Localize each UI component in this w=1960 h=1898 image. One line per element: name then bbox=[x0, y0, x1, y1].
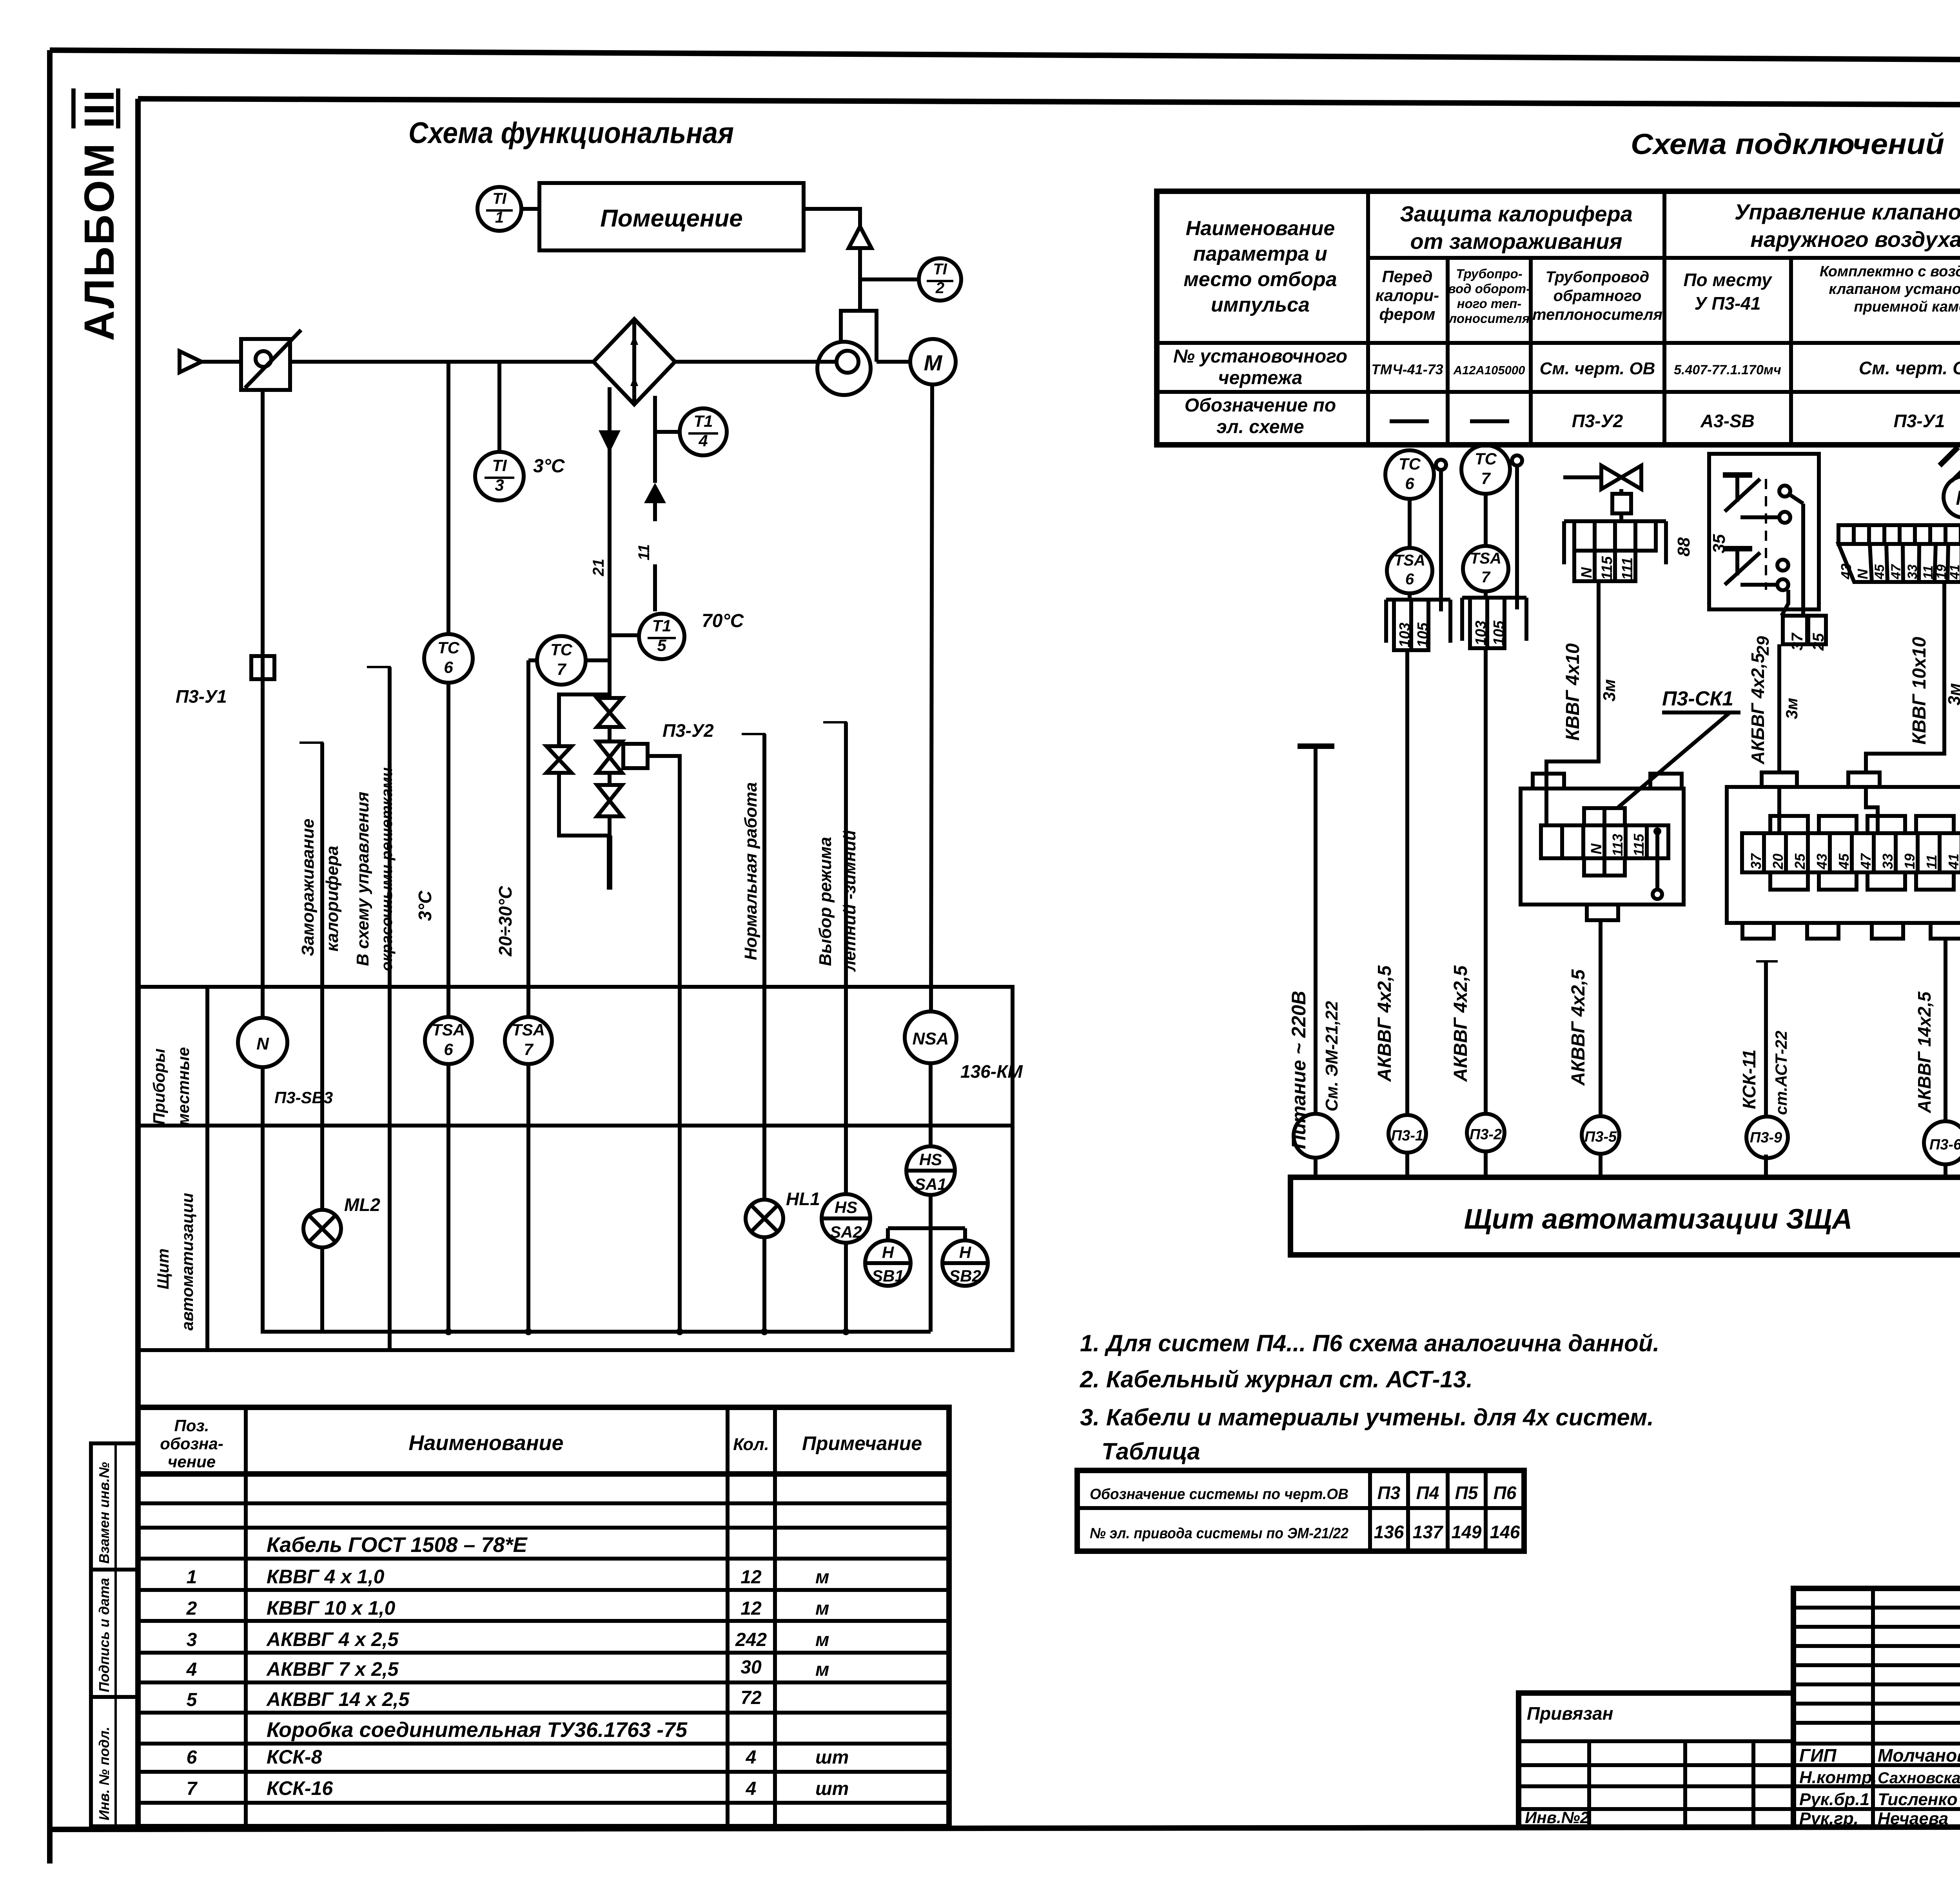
parts row 6 bbox=[187, 1746, 849, 1768]
outdoor valve symbol bbox=[1563, 466, 1641, 513]
svg-text:АЛЬБОМ III: АЛЬБОМ III bbox=[75, 89, 123, 341]
label П3-СК1 bbox=[1618, 687, 1740, 807]
svg-text:6: 6 bbox=[444, 1040, 453, 1059]
instrument circle divider bars bbox=[485, 210, 1960, 638]
svg-text:КВВГ 4 х 1,0: КВВГ 4 х 1,0 bbox=[267, 1566, 385, 1588]
label Замораживание калорифера wire bbox=[298, 743, 342, 1210]
button bus SB1 SB2 bbox=[888, 1063, 965, 1332]
svg-text:Щит: Щит bbox=[154, 1248, 172, 1289]
fan volute bbox=[817, 248, 877, 395]
svg-text:Комплектно с воздушным: Комплектно с воздушным bbox=[1820, 263, 1960, 280]
svg-text:41: 41 bbox=[1945, 854, 1960, 870]
setpoint 20-30C on TC7 line bbox=[495, 886, 515, 957]
svg-text:ТІ: ТІ bbox=[492, 190, 506, 207]
main duct line bbox=[290, 360, 837, 364]
band label Щит автоматизации bbox=[154, 1193, 196, 1331]
svg-text:вод оборот-: вод оборот- bbox=[1448, 281, 1530, 296]
svg-text:№ установочного: № установочного bbox=[1173, 346, 1347, 367]
svg-text:П3-У2: П3-У2 bbox=[1572, 411, 1623, 431]
subheader Комплектно bbox=[1820, 263, 1960, 315]
svg-text:ТС: ТС bbox=[1475, 450, 1497, 468]
svg-text:20÷30°C: 20÷30°C bbox=[495, 886, 515, 957]
svg-text:1: 1 bbox=[187, 1567, 197, 1588]
svg-text:19: 19 bbox=[1934, 564, 1949, 579]
heater diamond bbox=[593, 319, 675, 404]
terminal box 103 105 col6 bbox=[1386, 600, 1450, 1115]
svg-text:ТС: ТС bbox=[1399, 455, 1421, 473]
svg-text:теплоносителя: теплоносителя bbox=[1532, 306, 1662, 323]
svg-text:21: 21 bbox=[590, 559, 607, 577]
svg-text:45: 45 bbox=[1872, 564, 1887, 580]
label В схему управления wire bbox=[353, 667, 396, 1350]
svg-text:НS: НS bbox=[835, 1198, 857, 1216]
circle П3-2 bbox=[1467, 1114, 1504, 1177]
circle П3-6 bbox=[1924, 1121, 1960, 1177]
svg-text:4: 4 bbox=[746, 1747, 757, 1768]
svg-text:SА2: SА2 bbox=[830, 1223, 862, 1241]
svg-text:Трубопровод: Трубопровод bbox=[1546, 268, 1649, 286]
svg-text:параметра и: параметра и bbox=[1193, 243, 1327, 265]
svg-text:Молчанов: Молчанов bbox=[1878, 1745, 1960, 1766]
svg-text:эл. схеме: эл. схеме bbox=[1216, 417, 1304, 437]
svg-text:70°C: 70°C bbox=[702, 611, 744, 631]
svg-text:5.407-77.1.170мч: 5.407-77.1.170мч bbox=[1674, 363, 1781, 377]
svg-text:шт: шт bbox=[815, 1778, 849, 1799]
svg-text:ТМЧ-41-73: ТМЧ-41-73 bbox=[1371, 361, 1443, 377]
svg-text:П4: П4 bbox=[1416, 1483, 1439, 1503]
svg-text:импульса: импульса bbox=[1211, 294, 1310, 316]
svg-text:Рук.бр.1: Рук.бр.1 bbox=[1799, 1790, 1869, 1809]
svg-text:45: 45 bbox=[1836, 853, 1852, 870]
wire room to damper bbox=[804, 209, 860, 227]
instrument TI/1 bbox=[477, 187, 539, 231]
svg-text:КВВГ 10х10: КВВГ 10х10 bbox=[1909, 637, 1930, 745]
panel switch HS/SA2 bbox=[822, 1194, 870, 1243]
svg-text:местные: местные bbox=[174, 1047, 192, 1126]
svg-text:113: 113 bbox=[1610, 834, 1626, 856]
svg-text:5: 5 bbox=[187, 1690, 198, 1710]
svg-text:Обозначение системы по черт.ОВ: Обозначение системы по черт.ОВ bbox=[1090, 1486, 1348, 1503]
title block signature rows bbox=[1799, 1745, 1960, 1828]
cable КВВГ 4х10 wire to СК1 bbox=[1546, 581, 1619, 789]
system table bbox=[1077, 1470, 1524, 1551]
svg-text:КСК-16: КСК-16 bbox=[267, 1777, 333, 1799]
svg-text:4: 4 bbox=[186, 1659, 197, 1680]
svg-text:6: 6 bbox=[1405, 474, 1414, 493]
panel switch HS/SA1 bbox=[906, 1146, 955, 1195]
subheader Перед калорифером bbox=[1376, 267, 1439, 323]
svg-text:АКВВГ 4х2,5: АКВВГ 4х2,5 bbox=[1374, 965, 1395, 1082]
svg-text:обозна-: обозна- bbox=[160, 1434, 223, 1453]
svg-text:3м: 3м bbox=[1782, 698, 1801, 719]
svg-text:N: N bbox=[1579, 567, 1595, 578]
svg-text:АКВВГ 7 х 2,5: АКВВГ 7 х 2,5 bbox=[266, 1658, 399, 1680]
svg-text:115: 115 bbox=[1631, 834, 1647, 856]
svg-text:Примечание: Примечание bbox=[802, 1432, 922, 1454]
svg-text:П3-6: П3-6 bbox=[1929, 1137, 1960, 1153]
svg-text:Коробка соединительная ТУ36.: Коробка соединительная ТУ36.1763 -75 bbox=[267, 1718, 688, 1742]
svg-text:136-КМ: 136-КМ bbox=[960, 1061, 1023, 1082]
svg-text:м: м bbox=[815, 1659, 829, 1680]
local instrument TSA/6 bbox=[425, 1017, 472, 1064]
svg-text:П3-5: П3-5 bbox=[1584, 1129, 1617, 1145]
panel lamp HL1 bbox=[746, 1189, 820, 1237]
svg-text:фером: фером bbox=[1379, 305, 1436, 323]
svg-text:Н: Н bbox=[959, 1243, 972, 1262]
instrument T1/5 bbox=[610, 611, 744, 659]
svg-text:103: 103 bbox=[1397, 623, 1413, 647]
svg-text:149: 149 bbox=[1452, 1522, 1482, 1542]
svg-text:11: 11 bbox=[1924, 855, 1940, 869]
svg-text:Поз.: Поз. bbox=[174, 1416, 209, 1435]
svg-text:NSА: NSА bbox=[913, 1029, 949, 1048]
svg-text:137: 137 bbox=[1413, 1522, 1444, 1542]
row № установочного чертежа bbox=[1173, 346, 1960, 388]
svg-text:2. Кабельный журнал ст. А: 2. Кабельный журнал ст. АСТ-13. bbox=[1080, 1366, 1473, 1392]
svg-text:ТС: ТС bbox=[550, 640, 573, 659]
svg-text:По месту: По месту bbox=[1683, 270, 1772, 290]
svg-text:35: 35 bbox=[1710, 534, 1729, 553]
svg-text:м: м bbox=[815, 1598, 829, 1619]
svg-text:автоматизации: автоматизации bbox=[178, 1193, 196, 1331]
setpoint 3C on TC6 line bbox=[415, 890, 435, 921]
svg-text:П3-2: П3-2 bbox=[1470, 1126, 1502, 1143]
svg-text:43: 43 bbox=[1838, 564, 1854, 580]
panel bottom bus bbox=[263, 1064, 931, 1335]
svg-text:П3: П3 bbox=[1377, 1483, 1401, 1503]
svg-text:30: 30 bbox=[740, 1657, 762, 1678]
damper actuator box bbox=[241, 330, 301, 390]
svg-text:ТС: ТС bbox=[437, 638, 460, 657]
svg-text:Кол.: Кол. bbox=[733, 1435, 769, 1454]
svg-text:П3-У1: П3-У1 bbox=[176, 686, 227, 707]
wire П3-9 bbox=[1739, 961, 1790, 1117]
svg-text:П6: П6 bbox=[1494, 1483, 1517, 1503]
panel connection circles bbox=[1294, 1114, 1338, 1177]
svg-text:обратного: обратного bbox=[1553, 287, 1642, 305]
local instrument NSA 136-КМ bbox=[905, 1012, 1023, 1082]
svg-text:Взамен инв.№: Взамен инв.№ bbox=[96, 1462, 112, 1564]
panel button H/SB2 bbox=[942, 1228, 988, 1286]
svg-text:HL1: HL1 bbox=[786, 1189, 820, 1209]
svg-text:3: 3 bbox=[187, 1630, 197, 1650]
svg-text:SВ2: SВ2 bbox=[949, 1267, 981, 1285]
panel button H/SB1 bbox=[865, 1228, 911, 1286]
svg-text:калорифера: калорифера bbox=[323, 846, 342, 952]
svg-text:103: 103 bbox=[1473, 621, 1489, 645]
panel lamp ML2 bbox=[303, 1195, 380, 1247]
svg-text:Инв. № подл.: Инв. № подл. bbox=[96, 1727, 112, 1820]
svg-text:КСК-8: КСК-8 bbox=[267, 1746, 322, 1768]
parts row 5 bbox=[187, 1688, 762, 1710]
notes text bbox=[1080, 1330, 1659, 1465]
svg-text:47: 47 bbox=[1858, 853, 1874, 870]
svg-text:окрасочными решетками: окрасочными решетками bbox=[378, 767, 396, 971]
svg-text:33: 33 bbox=[1880, 854, 1896, 869]
svg-text:М: М bbox=[1956, 487, 1960, 509]
motor M circle bbox=[877, 339, 956, 384]
svg-text:П3-1: П3-1 bbox=[1391, 1128, 1423, 1144]
svg-text:146: 146 bbox=[1490, 1522, 1520, 1542]
svg-text:Схема функциональная: Схема функциональная bbox=[408, 116, 734, 150]
svg-text:105: 105 bbox=[1491, 620, 1507, 645]
svg-text:Таблица: Таблица bbox=[1102, 1438, 1200, 1465]
svg-text:Нечаева: Нечаева bbox=[1878, 1809, 1948, 1828]
parts row 3 bbox=[187, 1628, 829, 1650]
svg-text:2: 2 bbox=[186, 1598, 197, 1619]
svg-text:ного теп-: ного теп- bbox=[1457, 296, 1522, 311]
svg-text:Т1: Т1 bbox=[652, 616, 671, 635]
svg-text:Рук.гр.: Рук.гр. bbox=[1799, 1809, 1858, 1828]
svg-text:Помещение: Помещение bbox=[600, 205, 743, 232]
svg-text:Кабель ГОСТ 1508 – 78*Е: Кабель ГОСТ 1508 – 78*Е bbox=[267, 1533, 528, 1557]
svg-text:Приборы: Приборы bbox=[150, 1048, 168, 1125]
svg-text:Трубопро-: Трубопро- bbox=[1456, 266, 1522, 281]
svg-text:Наименование: Наименование bbox=[408, 1431, 563, 1455]
svg-text:место отбора: место отбора bbox=[1183, 268, 1337, 291]
svg-text:летний -зимний: летний -зимний bbox=[840, 830, 859, 972]
table header Управление клапаном bbox=[1735, 199, 1960, 252]
svg-text:Сахновская: Сахновская bbox=[1878, 1769, 1960, 1787]
label Нормальная работа wire bbox=[741, 734, 766, 1200]
svg-text:88: 88 bbox=[1674, 537, 1693, 557]
svg-text:7: 7 bbox=[1481, 469, 1491, 488]
svg-text:шт: шт bbox=[815, 1747, 849, 1768]
svg-text:19: 19 bbox=[1902, 854, 1918, 869]
svg-text:Н: Н bbox=[882, 1243, 895, 1262]
svg-text:лоносителя: лоносителя bbox=[1448, 311, 1530, 326]
svg-text:П3-У1: П3-У1 bbox=[1894, 411, 1945, 431]
title block small grid columns bbox=[1793, 1588, 1960, 1827]
parts row box group bbox=[267, 1718, 688, 1742]
svg-text:115: 115 bbox=[1599, 556, 1615, 580]
svg-text:29: 29 bbox=[1753, 636, 1773, 656]
cable label АКВВГ 4х2,5 col7 bbox=[1450, 965, 1471, 1082]
left margin stamp box Взамен инв.№ bbox=[91, 1443, 138, 1570]
album label АЛЬБОМ III bbox=[75, 89, 123, 341]
parts row 7 bbox=[187, 1777, 849, 1799]
svg-text:наружного воздуха: наружного воздуха bbox=[1750, 227, 1960, 252]
svg-text:25: 25 bbox=[1792, 853, 1808, 870]
svg-text:приемной камере: приемной камере bbox=[1854, 299, 1960, 315]
svg-text:4: 4 bbox=[746, 1778, 757, 1799]
svg-text:В схему управления: В схему управления bbox=[353, 792, 372, 966]
terminal box 103 105 col7 bbox=[1462, 598, 1526, 1114]
svg-text:12: 12 bbox=[740, 1567, 762, 1588]
air intake arrow bbox=[180, 351, 241, 372]
svg-text:Нормальная работа: Нормальная работа bbox=[741, 782, 760, 960]
svg-text:ст.АСТ-22: ст.АСТ-22 bbox=[1772, 1031, 1790, 1115]
svg-text:SА1: SА1 bbox=[915, 1175, 947, 1193]
instrument TI/3 bbox=[475, 452, 565, 500]
svg-text:Защита калорифера: Защита калорифера bbox=[1400, 201, 1633, 226]
cable АКБВГ 4х2,5 to СК2 bbox=[1748, 644, 1801, 774]
power supply wire Питание bbox=[1288, 746, 1341, 1149]
cable АКВВГ 14х2,5 to П3-6 bbox=[1914, 939, 1945, 1121]
row Обозначение по эл схеме bbox=[1185, 395, 1960, 437]
svg-text:А12А105000: А12А105000 bbox=[1453, 363, 1525, 377]
svg-text:25: 25 bbox=[1810, 633, 1827, 651]
svg-text:чение: чение bbox=[168, 1452, 216, 1471]
svg-text:Щит автоматизации ЗЩА: Щит автоматизации ЗЩА bbox=[1464, 1204, 1853, 1235]
svg-text:М: М bbox=[924, 350, 943, 375]
subheader По месту bbox=[1683, 270, 1772, 314]
label Выбор режима wire bbox=[816, 722, 859, 1193]
svg-text:чертежа: чертежа bbox=[1218, 368, 1303, 388]
svg-text:АКВВГ 4 х 2,5: АКВВГ 4 х 2,5 bbox=[266, 1628, 399, 1650]
svg-text:АКВВГ 4х2,5: АКВВГ 4х2,5 bbox=[1450, 965, 1471, 1082]
title Схема подключений bbox=[1631, 128, 1944, 160]
svg-text:А3-SВ: А3-SВ bbox=[1700, 411, 1755, 431]
svg-text:43: 43 bbox=[1814, 854, 1830, 870]
svg-text:№ эл. привода системы по ЭМ-21: № эл. привода системы по ЭМ-21/22 bbox=[1090, 1525, 1348, 1542]
svg-text:АКВВГ 4х2,5: АКВВГ 4х2,5 bbox=[1568, 969, 1589, 1086]
svg-text:11: 11 bbox=[1921, 566, 1936, 579]
circle П3-5 bbox=[1582, 1116, 1619, 1177]
svg-text:N: N bbox=[1588, 843, 1605, 854]
svg-text:П3-СК1: П3-СК1 bbox=[1662, 687, 1733, 710]
relay contact box bbox=[1674, 454, 1819, 609]
wire duct to TC6 bbox=[446, 362, 450, 634]
svg-text:КВВГ 4х10: КВВГ 4х10 bbox=[1563, 643, 1583, 741]
junction box П3-СК1 bbox=[1521, 774, 1684, 920]
instrument TC/6 bbox=[424, 634, 473, 1017]
svg-text:6: 6 bbox=[187, 1747, 197, 1768]
instrument TC/7 bbox=[528, 636, 610, 1017]
band label Приборы местные bbox=[150, 1047, 192, 1126]
svg-text:П3-У2: П3-У2 bbox=[662, 720, 714, 741]
svg-text:105: 105 bbox=[1415, 622, 1431, 647]
motor M conn bbox=[1940, 447, 1960, 518]
svg-text:Выбор режима: Выбор режима bbox=[816, 837, 835, 966]
title Схема функциональная bbox=[408, 116, 734, 150]
wire M down to NSA bbox=[931, 384, 932, 1012]
svg-text:м: м bbox=[815, 1630, 829, 1650]
svg-text:ML2: ML2 bbox=[344, 1195, 380, 1215]
circle П3-1 bbox=[1388, 1115, 1426, 1177]
motor terminal strip bbox=[1838, 515, 1960, 582]
bypass line with valve bbox=[546, 694, 610, 890]
svg-text:37: 37 bbox=[1789, 633, 1806, 651]
local instrument TSA/7 bbox=[505, 1017, 552, 1064]
instrument TSA/7 conn bbox=[1463, 546, 1508, 598]
wire duct to TI3 bbox=[497, 362, 501, 452]
heater outlet line 21 bbox=[590, 387, 621, 698]
svg-text:33: 33 bbox=[1905, 564, 1920, 579]
svg-text:47: 47 bbox=[1889, 564, 1904, 580]
svg-text:7: 7 bbox=[1481, 569, 1491, 586]
svg-text:АКБВГ 4х2,5: АКБВГ 4х2,5 bbox=[1748, 653, 1768, 765]
svg-text:72: 72 bbox=[740, 1688, 762, 1708]
svg-text:Управление клапаном: Управление клапаном bbox=[1735, 199, 1960, 224]
parts row cable group bbox=[267, 1533, 528, 1557]
instrument TC/6 conn bbox=[1385, 450, 1446, 611]
parts row 4 bbox=[186, 1657, 829, 1680]
svg-text:Схема подключений: Схема подключений bbox=[1631, 128, 1944, 160]
svg-text:Замораживание: Замораживание bbox=[298, 819, 318, 956]
svg-text:от замораживания: от замораживания bbox=[1410, 229, 1622, 254]
svg-text:П3-SB3: П3-SB3 bbox=[274, 1088, 333, 1107]
svg-text:ТSА: ТSА bbox=[1394, 552, 1425, 569]
instrument TSA/6 conn bbox=[1387, 548, 1432, 600]
svg-text:111: 111 bbox=[1619, 557, 1636, 580]
room box Помещение bbox=[539, 183, 804, 250]
parts table grid bbox=[138, 1407, 949, 1827]
instrument TC/7 conn bbox=[1461, 445, 1522, 609]
svg-text:12: 12 bbox=[740, 1598, 762, 1619]
svg-text:калори-: калори- bbox=[1376, 286, 1439, 305]
table header Защита калорифера bbox=[1400, 201, 1633, 254]
svg-text:У П3-41: У П3-41 bbox=[1694, 293, 1760, 314]
svg-text:7: 7 bbox=[524, 1040, 534, 1059]
svg-text:41: 41 bbox=[1947, 564, 1960, 580]
svg-text:Тисленко: Тисленко bbox=[1878, 1790, 1958, 1809]
svg-text:20: 20 bbox=[1770, 854, 1786, 870]
instrument rows band box bbox=[138, 987, 1013, 1350]
svg-text:АКВВГ 14 х 2,5: АКВВГ 14 х 2,5 bbox=[266, 1688, 410, 1710]
svg-text:7: 7 bbox=[557, 660, 566, 678]
svg-text:136: 136 bbox=[1374, 1522, 1404, 1542]
parts row 2 bbox=[186, 1597, 829, 1619]
svg-text:11: 11 bbox=[635, 544, 653, 560]
svg-text:3. Кабели и материалы уч: 3. Кабели и материалы учтены. для 4х сис… bbox=[1080, 1404, 1654, 1430]
junction box П3-СК2 bbox=[1727, 772, 1960, 939]
table header Наименование параметра bbox=[1183, 217, 1337, 316]
title block left attach box bbox=[1519, 1703, 1793, 1827]
svg-text:ТІ: ТІ bbox=[933, 261, 947, 278]
svg-text:НS: НS bbox=[919, 1150, 942, 1169]
svg-text:3°C: 3°C bbox=[533, 456, 565, 477]
title block outer bbox=[1519, 1588, 1960, 1827]
valve terminal strip N 115 111 bbox=[1564, 513, 1666, 581]
svg-text:3м: 3м bbox=[1945, 683, 1960, 705]
valve 2 with actuator П3-У2 bbox=[597, 720, 714, 773]
svg-text:6: 6 bbox=[1405, 571, 1414, 588]
left margin stamp box Подпись и дата bbox=[91, 1570, 138, 1697]
circle П3-9 bbox=[1746, 1117, 1788, 1177]
svg-text:3м: 3м bbox=[1600, 679, 1619, 702]
svg-text:м: м bbox=[815, 1567, 829, 1588]
svg-text:7: 7 bbox=[187, 1778, 198, 1799]
svg-text:Инв.№2: Инв.№2 bbox=[1525, 1808, 1589, 1827]
svg-text:КВВГ 10 х 1,0: КВВГ 10 х 1,0 bbox=[267, 1597, 395, 1619]
svg-text:АКВВГ 14х2,5: АКВВГ 14х2,5 bbox=[1914, 991, 1935, 1113]
svg-text:ТSА: ТSА bbox=[432, 1021, 465, 1039]
actuator П3-У2 output wire bbox=[648, 756, 680, 1332]
svg-text:ГИП: ГИП bbox=[1799, 1745, 1837, 1766]
svg-text:3°C: 3°C bbox=[415, 890, 435, 921]
svg-text:Н.контр.: Н.контр. bbox=[1799, 1768, 1877, 1787]
svg-text:SВ1: SВ1 bbox=[872, 1267, 904, 1285]
svg-text:Т1: Т1 bbox=[693, 412, 713, 430]
heater return line 11 bbox=[635, 396, 666, 611]
subheader Трубопровод обратного bbox=[1532, 268, 1662, 323]
instrument T1/4 bbox=[655, 408, 727, 455]
svg-text:Наименование: Наименование bbox=[1186, 217, 1335, 240]
left margin stamp box Инв. № подл. bbox=[91, 1697, 138, 1826]
svg-text:37: 37 bbox=[1748, 853, 1764, 869]
svg-text:242: 242 bbox=[735, 1630, 767, 1650]
instrument TI/2 bbox=[860, 258, 961, 301]
svg-text:ТSА: ТSА bbox=[512, 1021, 545, 1039]
automation panel box ЗЩА bbox=[1290, 1177, 1960, 1255]
cable label АКВВГ 4х2,5 col6 bbox=[1374, 965, 1395, 1082]
subheader Трубопровод оборотного bbox=[1448, 266, 1530, 326]
cable АКВВГ 4х2,5 to П3-5 bbox=[1568, 920, 1601, 1115]
svg-text:N: N bbox=[1855, 569, 1871, 579]
svg-text:1. Для систем П4... П6 схем: 1. Для систем П4... П6 схема аналогична … bbox=[1080, 1330, 1659, 1356]
svg-text:6: 6 bbox=[444, 658, 453, 676]
